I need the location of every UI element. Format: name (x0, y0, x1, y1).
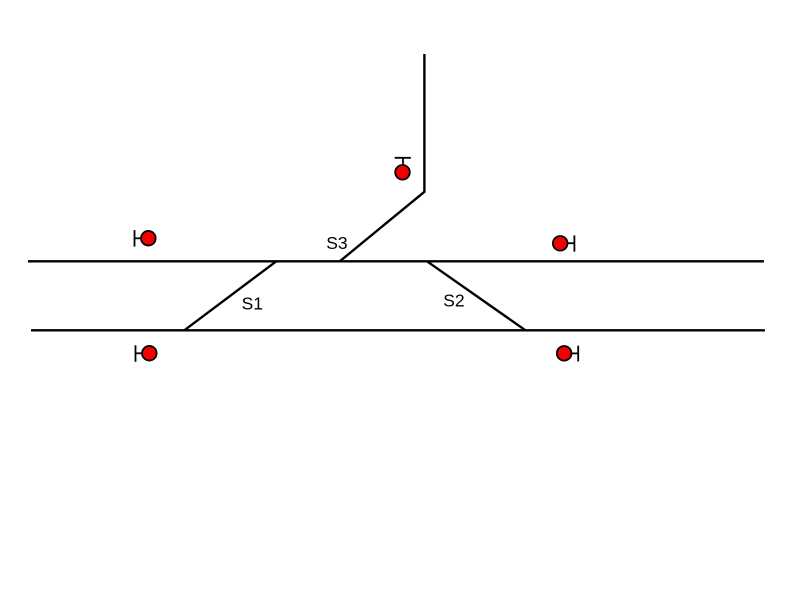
svg-text:S2: S2 (443, 290, 464, 310)
svg-text:S1: S1 (242, 293, 263, 313)
svg-text:S3: S3 (326, 233, 347, 253)
signal mast (branch line) (395, 158, 411, 165)
switch S3 branch line (340, 54, 425, 261)
signal lamp (bottom-left) (142, 346, 157, 361)
signal mast (top-left) (135, 230, 143, 247)
signal lamp (bottom-right) (557, 346, 572, 361)
signal lamp (branch line) (395, 165, 410, 180)
label S1 (242, 293, 263, 313)
signal lamp (top-right) (553, 236, 568, 251)
switch S2 crossover (427, 261, 526, 330)
signal mast (top-right) (567, 235, 575, 251)
switch S1 crossover (184, 261, 276, 330)
label S3 (326, 233, 347, 253)
signal lamp (top-left) (141, 231, 156, 246)
signal mast (bottom-left) (136, 345, 144, 362)
signal mast (bottom-right) (571, 346, 578, 362)
track 2 (lower main line) (31, 329, 765, 331)
track 1 (upper main line) (28, 260, 764, 262)
label S2 (443, 290, 464, 310)
